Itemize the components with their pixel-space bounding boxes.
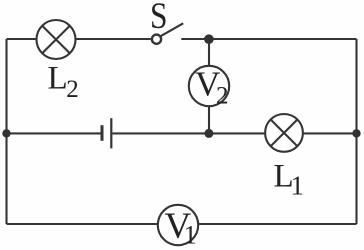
svg-text:2: 2 (66, 76, 79, 103)
svg-text:S: S (150, 0, 167, 37)
svg-text:1: 1 (184, 221, 197, 250)
svg-text:L: L (48, 60, 68, 96)
svg-text:2: 2 (216, 82, 229, 109)
svg-text:1: 1 (291, 171, 305, 201)
